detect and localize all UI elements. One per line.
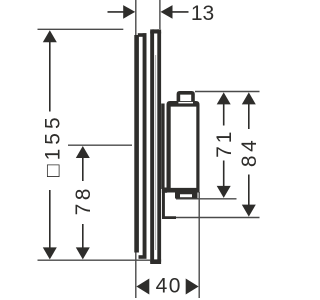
carrier box top cap <box>138 33 147 37</box>
84 bottom extension line <box>164 217 260 219</box>
71 bottom extension line <box>176 198 237 200</box>
square-155 top extension line <box>38 28 124 30</box>
dimension 71 line and arrows <box>217 92 231 197</box>
handle knob body <box>167 101 200 193</box>
carrier box bottom cap <box>139 255 147 259</box>
button base white seam <box>178 102 193 104</box>
escutcheon plate top cap <box>150 29 161 33</box>
dimension square-155 line and arrows <box>43 30 57 259</box>
carrier box right wall <box>143 33 147 258</box>
svg-text:□155: □155 <box>42 113 65 177</box>
svg-text:13: 13 <box>191 2 214 25</box>
wall extension line left of plate (13/40 datum) <box>135 0 137 36</box>
under-tab below handle <box>175 193 198 199</box>
escutcheon plate right wall <box>157 29 161 264</box>
78 top extension line <box>68 144 132 146</box>
svg-text:40: 40 <box>156 275 182 298</box>
dimension 13 arrow left <box>108 5 136 19</box>
square-155 / 78 bottom extension line <box>38 259 151 261</box>
escutcheon plate bottom cap <box>150 259 161 264</box>
dimension 78 line and arrows <box>76 146 90 259</box>
plate inner seam hairline <box>155 55 157 250</box>
escutcheon plate left wall <box>150 29 154 264</box>
handle neck behind knob <box>161 104 164 190</box>
concealed body back strip <box>134 35 139 253</box>
handle select button on top <box>177 91 195 102</box>
handle top extension line (71/84 datum) <box>195 91 260 93</box>
dimension 84 line and arrows <box>242 92 256 216</box>
dimension 40 arrows <box>136 279 198 295</box>
40 left extension line (wall datum, below plate) <box>135 250 137 298</box>
handle base fillet joining neck <box>162 188 167 193</box>
cartridge stem piece below handle <box>162 188 176 219</box>
svg-text:71: 71 <box>213 129 236 158</box>
svg-text:84: 84 <box>238 137 261 167</box>
40 right extension line (handle front datum) <box>198 192 200 298</box>
plate front extension line (13 datum right) <box>159 0 161 29</box>
svg-text:78: 78 <box>72 185 95 215</box>
dimension 13 arrow right <box>161 5 189 19</box>
